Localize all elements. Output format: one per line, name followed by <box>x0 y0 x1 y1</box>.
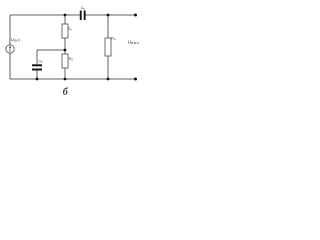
svg-text:Rб: Rб <box>69 57 74 62</box>
svg-text:б: б <box>63 87 69 98</box>
wire load branch upper <box>107 15 109 38</box>
wire shunt capacitor branch lower vertical <box>36 71 38 80</box>
wire shunt capacitor branch horizontal <box>37 49 65 51</box>
wire top rail left segment <box>10 14 80 16</box>
svg-text:Cб: Cб <box>38 59 43 64</box>
node bottom middle junction <box>64 78 67 81</box>
wire left vertical lower <box>9 53 11 79</box>
node middle divider junction <box>64 49 67 52</box>
svg-text:Uвх.б: Uвх.б <box>11 37 20 43</box>
svg-text:Cр: Cр <box>81 6 86 11</box>
wire middle branch between resistors <box>64 38 66 54</box>
source G1 arrow <box>9 46 11 52</box>
wire load branch lower <box>107 56 109 79</box>
wire middle branch upper <box>64 15 66 24</box>
source G1 circle <box>6 45 14 53</box>
node top middle junction <box>64 14 67 17</box>
wire shunt capacitor branch upper vertical <box>36 50 38 64</box>
node bottom capacitor junction <box>36 78 39 81</box>
svg-text:Uвых: Uвых <box>128 39 140 45</box>
capacitor C1 series plates <box>80 11 82 21</box>
svg-text:Rи: Rи <box>68 27 73 32</box>
svg-text:Rн: Rн <box>111 37 116 42</box>
node output bottom terminal <box>134 78 137 81</box>
node bottom load junction <box>107 78 110 81</box>
capacitor Cб shunt plates <box>32 64 42 66</box>
node output top terminal <box>134 14 137 17</box>
resistor Rн load <box>105 38 111 56</box>
wire middle branch lower <box>64 68 66 79</box>
wire top rail right segment <box>86 14 136 16</box>
wire bottom rail <box>10 78 136 80</box>
resistor Rи <box>62 24 68 38</box>
wire left vertical upper <box>9 15 11 45</box>
node top load junction <box>107 14 110 17</box>
resistor Rб <box>62 54 68 68</box>
